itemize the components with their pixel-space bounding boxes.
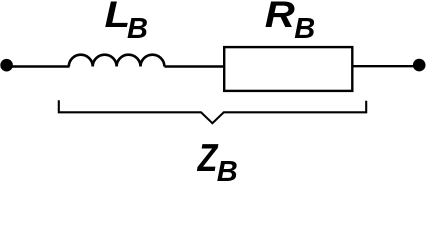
svg-text:B: B — [127, 13, 148, 45]
resistor RB (box) — [224, 47, 352, 91]
wire (resistor to right terminal) — [354, 65, 415, 67]
svg-text:R: R — [265, 0, 296, 35]
inductor LB (coil, 4 humps) — [69, 55, 165, 67]
node A (left terminal dot) — [0, 59, 13, 72]
wire (left terminal to inductor) — [7, 65, 70, 67]
svg-text:B: B — [294, 13, 315, 45]
svg-text:B: B — [217, 156, 238, 183]
wire (inductor to resistor) — [164, 65, 224, 67]
node B (right terminal dot) — [413, 59, 426, 72]
svg-text:Z: Z — [197, 136, 219, 179]
brace (underbrace spanning LB and RB, labelled ZB) — [59, 100, 366, 123]
